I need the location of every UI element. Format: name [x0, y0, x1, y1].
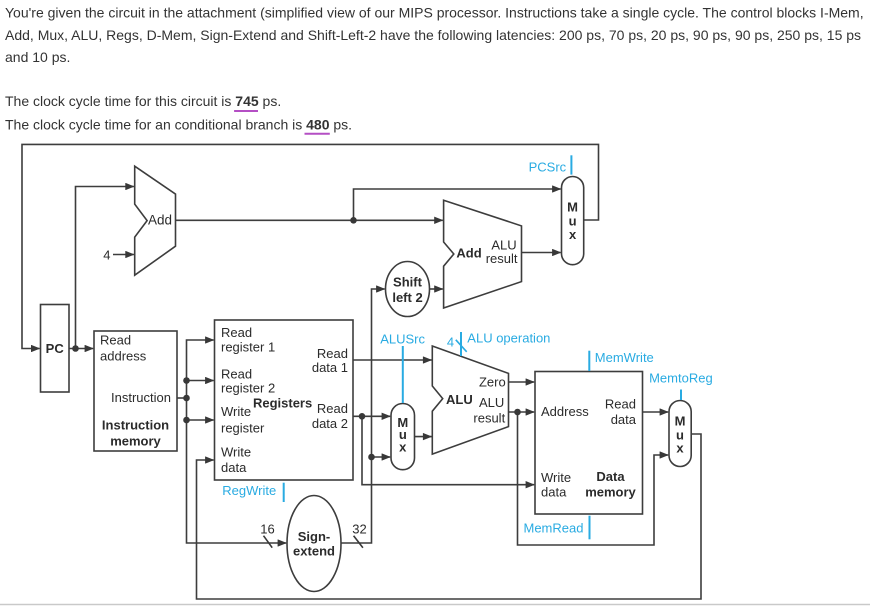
svg-text:MemRead: MemRead	[524, 521, 584, 536]
svg-text:data: data	[541, 485, 567, 500]
svg-text:data 2: data 2	[312, 416, 348, 431]
svg-text:The clock cycle time for this: The clock cycle time for this circuit is…	[5, 93, 281, 109]
svg-text:Instruction: Instruction	[102, 418, 169, 433]
svg-text:register 2: register 2	[221, 380, 275, 395]
svg-text:You're given the circuit in th: You're given the circuit in the attachme…	[5, 5, 864, 21]
svg-text:M: M	[567, 200, 578, 215]
svg-text:Read: Read	[605, 397, 636, 412]
svg-text:Write: Write	[221, 404, 251, 419]
svg-text:Instruction: Instruction	[111, 390, 171, 405]
svg-text:register: register	[221, 421, 265, 436]
svg-text:Shift: Shift	[393, 275, 423, 290]
svg-text:4: 4	[103, 248, 110, 263]
svg-text:PC: PC	[46, 341, 65, 356]
svg-text:RegWrite: RegWrite	[222, 483, 276, 498]
svg-text:Add: Add	[456, 246, 481, 261]
svg-text:register 1: register 1	[221, 340, 275, 355]
svg-text:Address: Address	[541, 404, 589, 419]
svg-text:Write: Write	[541, 470, 571, 485]
svg-text:Add: Add	[148, 213, 172, 228]
svg-text:data 1: data 1	[312, 360, 348, 375]
svg-text:4: 4	[447, 335, 454, 350]
svg-text:ALU operation: ALU operation	[467, 331, 550, 346]
svg-text:16: 16	[260, 522, 274, 537]
svg-text:left 2: left 2	[392, 290, 422, 305]
svg-text:extend: extend	[293, 544, 335, 559]
svg-text:MemtoReg: MemtoReg	[649, 370, 713, 385]
svg-text:Add, Mux, ALU, Regs, D-Mem, Si: Add, Mux, ALU, Regs, D-Mem, Sign-Extend …	[5, 27, 861, 43]
svg-text:x: x	[569, 227, 577, 242]
svg-text:memory: memory	[110, 434, 161, 449]
svg-text:memory: memory	[585, 485, 636, 500]
svg-text:address: address	[100, 349, 147, 364]
svg-text:and 10 ps.: and 10 ps.	[5, 49, 70, 65]
svg-text:Read: Read	[221, 325, 252, 340]
svg-text:Zero: Zero	[479, 374, 506, 389]
svg-text:result: result	[473, 411, 505, 426]
svg-text:The clock cycle time for an co: The clock cycle time for an conditional …	[5, 116, 352, 132]
svg-text:ALU: ALU	[479, 395, 504, 410]
svg-text:data: data	[221, 460, 247, 475]
svg-text:32: 32	[352, 522, 366, 537]
svg-text:Sign-: Sign-	[298, 529, 331, 544]
svg-text:Write: Write	[221, 445, 251, 460]
svg-text:PCSrc: PCSrc	[529, 160, 567, 175]
svg-text:Read: Read	[317, 401, 348, 416]
svg-text:Data: Data	[596, 469, 625, 484]
svg-text:ALUSrc: ALUSrc	[380, 332, 425, 347]
svg-text:MemWrite: MemWrite	[595, 350, 654, 365]
svg-text:Read: Read	[100, 333, 131, 348]
svg-text:Read: Read	[317, 346, 348, 361]
svg-text:x: x	[399, 440, 407, 455]
svg-text:result: result	[486, 251, 518, 266]
svg-text:Registers: Registers	[253, 396, 312, 411]
svg-text:ALU: ALU	[446, 392, 473, 407]
svg-text:data: data	[611, 412, 637, 427]
svg-text:x: x	[676, 441, 684, 456]
svg-text:Read: Read	[221, 366, 252, 381]
svg-text:M: M	[675, 414, 686, 429]
